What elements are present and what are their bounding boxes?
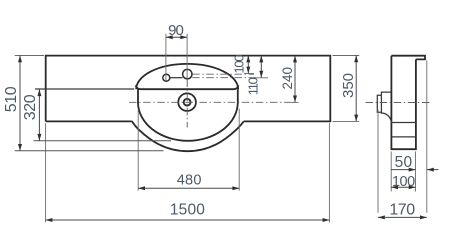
dimension 90 extension lines xyxy=(165,34,167,82)
drain horizontal centerline dash-dot xyxy=(129,101,298,103)
svg-text:90: 90 xyxy=(168,22,183,39)
svg-text:350: 350 xyxy=(340,73,357,98)
svg-text:110: 110 xyxy=(245,77,260,95)
dimension 50 line with outside arrows xyxy=(391,169,415,171)
side view horizontal split line 2 xyxy=(391,136,416,138)
dimension 320 extension line (bowl bottom) xyxy=(34,140,172,142)
svg-text:170: 170 xyxy=(389,202,415,219)
drain vertical centerline dash-dot xyxy=(186,80,188,128)
dimension 90 line xyxy=(166,36,187,38)
dimension 510 extension lines xyxy=(15,55,44,57)
dimension 320 line xyxy=(38,89,40,140)
basin front bulge outline xyxy=(132,121,244,151)
centerline dash-dot through left faucet hole xyxy=(192,77,257,79)
dimension 1500 line xyxy=(46,219,330,221)
countertop outline (plan view, 1500x350) xyxy=(46,56,331,122)
dimension 510 line xyxy=(19,56,21,151)
dimension 100 (side) line xyxy=(391,186,415,188)
svg-text:100: 100 xyxy=(232,55,247,74)
side view top edge with mounting lip xyxy=(391,56,425,60)
basin back deck edge line (left of basin) xyxy=(35,88,134,90)
svg-text:510: 510 xyxy=(3,86,20,112)
svg-text:1500: 1500 xyxy=(170,201,205,218)
dimension 100 terminator tick xyxy=(244,73,254,75)
dimension 110 terminator tick xyxy=(255,77,269,79)
svg-text:240: 240 xyxy=(280,67,295,90)
side extension lines for 50/100 xyxy=(390,152,392,192)
side view drain axis dash-dot xyxy=(366,102,430,104)
dimension 350 extension lines xyxy=(333,55,360,57)
svg-text:50: 50 xyxy=(395,154,413,171)
svg-text:100: 100 xyxy=(392,174,415,190)
dimension 1500 extension lines xyxy=(45,123,47,222)
dimension 480 line xyxy=(138,187,239,189)
faucet hole (left small) xyxy=(163,74,170,81)
side view horizontal split line 1 xyxy=(391,122,416,124)
dimension 480 extension lines xyxy=(137,110,139,191)
basin bowl outline (inner) xyxy=(138,89,238,141)
drain inner circle xyxy=(184,99,191,106)
faucet hole (right main) xyxy=(183,69,192,78)
dimension 100 line xyxy=(247,56,249,74)
dimension 240 terminator tick xyxy=(292,101,299,103)
dimension 350 line xyxy=(355,56,357,122)
connector line between faucet holes xyxy=(170,77,183,79)
dimension 240 line xyxy=(294,56,296,103)
centerline dash-dot through main faucet hole xyxy=(192,73,254,75)
side view bowl protrusion xyxy=(381,92,391,122)
drain outer circle xyxy=(178,93,196,111)
svg-text:480: 480 xyxy=(177,172,202,188)
svg-text:320: 320 xyxy=(22,94,39,120)
dimension 110 line xyxy=(260,56,262,78)
dimension 170 line xyxy=(378,216,427,218)
side view drain stub xyxy=(377,95,381,112)
basin deck chord line (thick, with curled ends) xyxy=(136,85,239,89)
basin outer top arc xyxy=(136,64,238,89)
side view body outline xyxy=(391,56,416,150)
